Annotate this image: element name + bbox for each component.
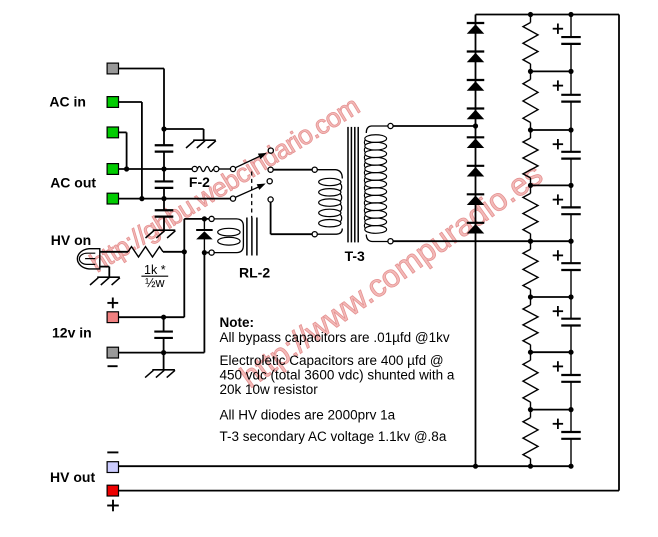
svg-text:12v in: 12v in [52, 325, 92, 341]
svg-text:450 vdc (total 3600 vdc) shunt: 450 vdc (total 3600 vdc) shunted with a [220, 367, 455, 382]
svg-text:1k *: 1k * [144, 263, 166, 277]
svg-text:T-3: T-3 [345, 248, 365, 264]
svg-text:All HV diodes are 2000prv 1a: All HV diodes are 2000prv 1a [220, 408, 396, 423]
svg-text:AC out: AC out [50, 174, 96, 190]
svg-text:Electroletic Capacitors are 40: Electroletic Capacitors are 400 µfd @ [220, 353, 444, 368]
svg-text:RL-2: RL-2 [239, 265, 270, 281]
svg-text:AC in: AC in [49, 94, 86, 110]
svg-text:All bypass capacitors are .01µ: All bypass capacitors are .01µfd @1kv [220, 330, 450, 345]
svg-text:T-3 secondary AC voltage 1.1kv: T-3 secondary AC voltage 1.1kv @.8a [220, 429, 447, 444]
svg-text:½w: ½w [145, 276, 165, 290]
svg-text:HV out: HV out [50, 469, 95, 485]
svg-text:HV on: HV on [51, 232, 91, 248]
svg-text:Note:: Note: [220, 315, 255, 330]
svg-text:20k 10w resistor: 20k 10w resistor [220, 382, 319, 397]
svg-text:F-2: F-2 [189, 174, 210, 190]
